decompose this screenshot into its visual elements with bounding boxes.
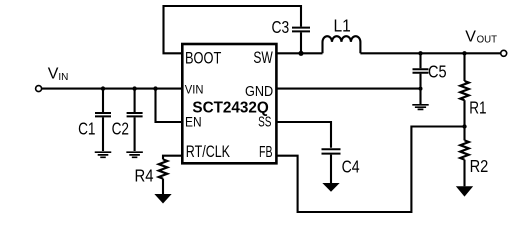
- svg-text:IN: IN: [58, 72, 68, 83]
- wire SW to inductor: [276, 52, 322, 54]
- node C1 tap: [101, 86, 105, 90]
- svg-text:R2: R2: [470, 156, 489, 176]
- capacitor C5: [419, 53, 421, 104]
- ground arrow under R4: [154, 194, 171, 204]
- node C2 tap: [132, 86, 136, 90]
- ground arrow under R2: [456, 186, 473, 196]
- node R1 top tap: [462, 51, 466, 55]
- wire RT/CLK to R4: [163, 156, 182, 160]
- svg-text:L1: L1: [334, 15, 351, 35]
- wire R4 to ground: [162, 179, 164, 194]
- svg-text:OUT: OUT: [477, 35, 497, 46]
- svg-text:SW: SW: [253, 49, 273, 67]
- capacitor C1: [102, 89, 104, 151]
- svg-text:R1: R1: [469, 98, 486, 118]
- node C5 bottom / GND junction: [419, 87, 423, 91]
- wire BOOT loop: [164, 6, 302, 53]
- wire GND to C5 ground: [276, 88, 420, 90]
- node R1/R2/FB junction: [462, 124, 466, 128]
- inductor L1: [323, 36, 361, 53]
- svg-text:FB: FB: [259, 144, 273, 161]
- ground under C5: [412, 105, 428, 110]
- node EN tap: [153, 86, 157, 90]
- IC U1 SCT2432Q body: [182, 44, 276, 163]
- svg-text:RT/CLK: RT/CLK: [186, 143, 230, 161]
- svg-text:V: V: [48, 66, 59, 83]
- node C5 top tap: [418, 51, 422, 55]
- resistor R4: [159, 159, 168, 178]
- resistor R1: [460, 81, 469, 100]
- svg-text:C3: C3: [272, 17, 290, 37]
- wire VIN line: [42, 88, 183, 90]
- svg-text:C2: C2: [112, 119, 129, 139]
- capacitor C4 plates: [322, 149, 341, 153]
- ground arrow under C4: [322, 183, 339, 192]
- node SW/C3 junction: [298, 51, 303, 56]
- ground under C1: [95, 152, 112, 157]
- wire EN branch: [156, 89, 183, 122]
- svg-text:C1: C1: [78, 119, 95, 139]
- wire R2 to ground: [463, 160, 465, 187]
- terminal VOUT: [501, 50, 507, 56]
- capacitor C2: [134, 89, 136, 151]
- wire R1 to junction: [463, 100, 465, 140]
- svg-text:C4: C4: [342, 157, 360, 177]
- wire C4 to ground: [330, 155, 332, 183]
- wire L1 to VOUT terminal: [360, 52, 500, 54]
- terminal VIN: [36, 86, 42, 92]
- svg-text:SCT2432Q: SCT2432Q: [192, 100, 268, 117]
- wire SS to C4: [276, 122, 331, 148]
- wire VOUT to R1: [463, 53, 465, 81]
- svg-text:GND: GND: [245, 84, 273, 100]
- svg-text:BOOT: BOOT: [185, 50, 221, 68]
- svg-text:C5: C5: [428, 61, 447, 81]
- ground under C2: [126, 152, 143, 157]
- svg-text:VIN: VIN: [185, 83, 204, 97]
- resistor R2: [460, 140, 469, 159]
- wire FB feedback path: [276, 127, 464, 213]
- capacitor C3 plates: [292, 28, 310, 32]
- svg-text:R4: R4: [135, 165, 154, 185]
- svg-text:V: V: [465, 29, 476, 46]
